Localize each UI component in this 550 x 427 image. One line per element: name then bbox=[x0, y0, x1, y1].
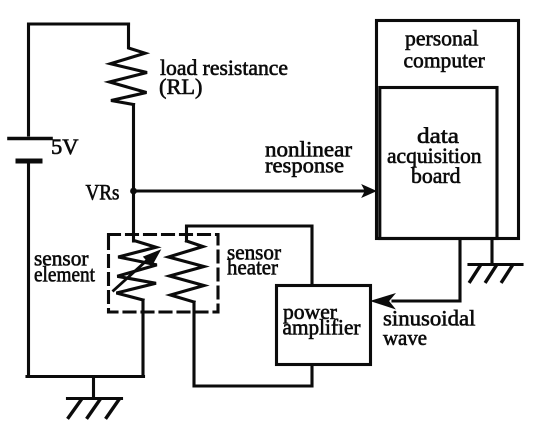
wire bbox=[27, 163, 30, 377]
svg-text:board: board bbox=[411, 163, 461, 188]
battery 5V bbox=[9, 139, 51, 162]
wire bbox=[194, 302, 312, 386]
ground bbox=[469, 239, 522, 282]
arrow sinusoidal bbox=[372, 294, 395, 309]
label sinusoidal wave bbox=[383, 305, 476, 350]
arrow nonlinear response bbox=[134, 185, 376, 196]
box power amplifier bbox=[277, 286, 371, 365]
label data acquisition board bbox=[387, 123, 482, 188]
label load resistance bbox=[159, 55, 288, 99]
label power amplifier bbox=[283, 299, 362, 340]
wire bbox=[187, 226, 313, 286]
resistor RS sensor element bbox=[116, 241, 156, 300]
label nonlinear response bbox=[265, 137, 353, 178]
svg-text:response: response bbox=[265, 153, 344, 178]
wire bbox=[27, 375, 144, 378]
svg-text:amplifier: amplifier bbox=[283, 314, 362, 339]
label personal computer bbox=[404, 26, 486, 73]
svg-text:VRs: VRs bbox=[86, 180, 120, 205]
wire bbox=[393, 239, 460, 301]
ground bbox=[68, 377, 122, 418]
svg-text:(RL): (RL) bbox=[159, 74, 203, 99]
svg-text:wave: wave bbox=[383, 325, 427, 350]
wire bbox=[132, 105, 135, 242]
svg-text:computer: computer bbox=[404, 47, 486, 72]
dashed box sensor bbox=[109, 235, 219, 313]
svg-text:heater: heater bbox=[227, 255, 279, 280]
svg-text:element: element bbox=[34, 262, 95, 287]
label sensor heater bbox=[227, 240, 282, 280]
box data acquisition board bbox=[380, 88, 497, 239]
resistor RL bbox=[110, 24, 148, 105]
wire bbox=[141, 300, 144, 377]
wire bbox=[29, 24, 129, 135]
node VRs bbox=[130, 188, 137, 195]
box personal computer bbox=[377, 21, 519, 239]
label sensor element bbox=[34, 246, 95, 287]
resistor RH sensor heater bbox=[169, 241, 205, 302]
arrow variable RS bbox=[114, 251, 160, 291]
svg-text:5V: 5V bbox=[51, 134, 79, 159]
